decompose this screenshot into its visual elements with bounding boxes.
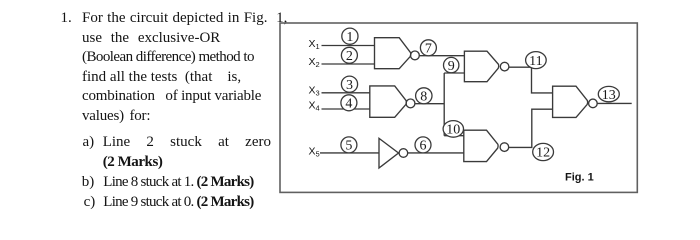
wire 5 [320, 152, 379, 154]
svg-text:11: 11 [529, 54, 542, 69]
question text block [61, 11, 72, 26]
wire 10 [444, 135, 464, 137]
wire 2 [322, 63, 375, 65]
svg-text:X3: X3 [309, 84, 320, 97]
wire 9 [444, 72, 464, 74]
NAND gate G2 [370, 86, 415, 117]
svg-text:9: 9 [448, 59, 455, 74]
node 11 [526, 52, 547, 69]
svg-text:12: 12 [536, 146, 550, 161]
wire branch vertical [443, 73, 445, 136]
node 7 [420, 40, 436, 56]
node 12 [533, 143, 554, 160]
wire 12 [509, 109, 553, 147]
NAND gate G1 [375, 38, 420, 69]
node 9 [444, 57, 459, 72]
node 10 [443, 121, 463, 138]
node 6 [415, 137, 431, 153]
NAND gate G4 [464, 51, 509, 81]
wire 8 [415, 103, 444, 105]
svg-text:13: 13 [602, 88, 616, 103]
svg-text:6: 6 [420, 139, 427, 154]
wire 4 [322, 108, 371, 110]
svg-text:X2: X2 [309, 56, 320, 69]
node 5 [341, 137, 357, 153]
NAND gate G5 [464, 130, 509, 161]
svg-text:Fig. 1: Fig. 1 [565, 172, 594, 184]
svg-text:3: 3 [346, 78, 353, 93]
svg-text:4: 4 [345, 97, 352, 112]
svg-text:X5: X5 [309, 145, 320, 158]
svg-text:5: 5 [345, 139, 352, 154]
wire 1 [322, 45, 375, 47]
node 8 [416, 88, 432, 104]
wire 11 [509, 67, 553, 93]
wire 3 [322, 92, 371, 94]
figure frame [280, 23, 637, 192]
svg-text:2: 2 [346, 49, 353, 64]
node 3 [341, 76, 357, 92]
svg-text:1: 1 [346, 30, 353, 45]
node 4 [341, 95, 357, 111]
inverter G3 [379, 138, 408, 168]
svg-text:7: 7 [425, 42, 432, 57]
svg-text:10: 10 [446, 123, 460, 138]
wire 7 [419, 55, 464, 57]
svg-text:X1: X1 [309, 38, 320, 51]
wire 13 [597, 102, 632, 104]
NAND gate G6 [553, 86, 598, 117]
node 13 [598, 86, 619, 101]
node 1 [342, 28, 358, 44]
svg-text:X4: X4 [309, 99, 320, 112]
svg-text:8: 8 [420, 90, 427, 105]
wire 6 [408, 152, 464, 154]
node 2 [341, 47, 357, 63]
